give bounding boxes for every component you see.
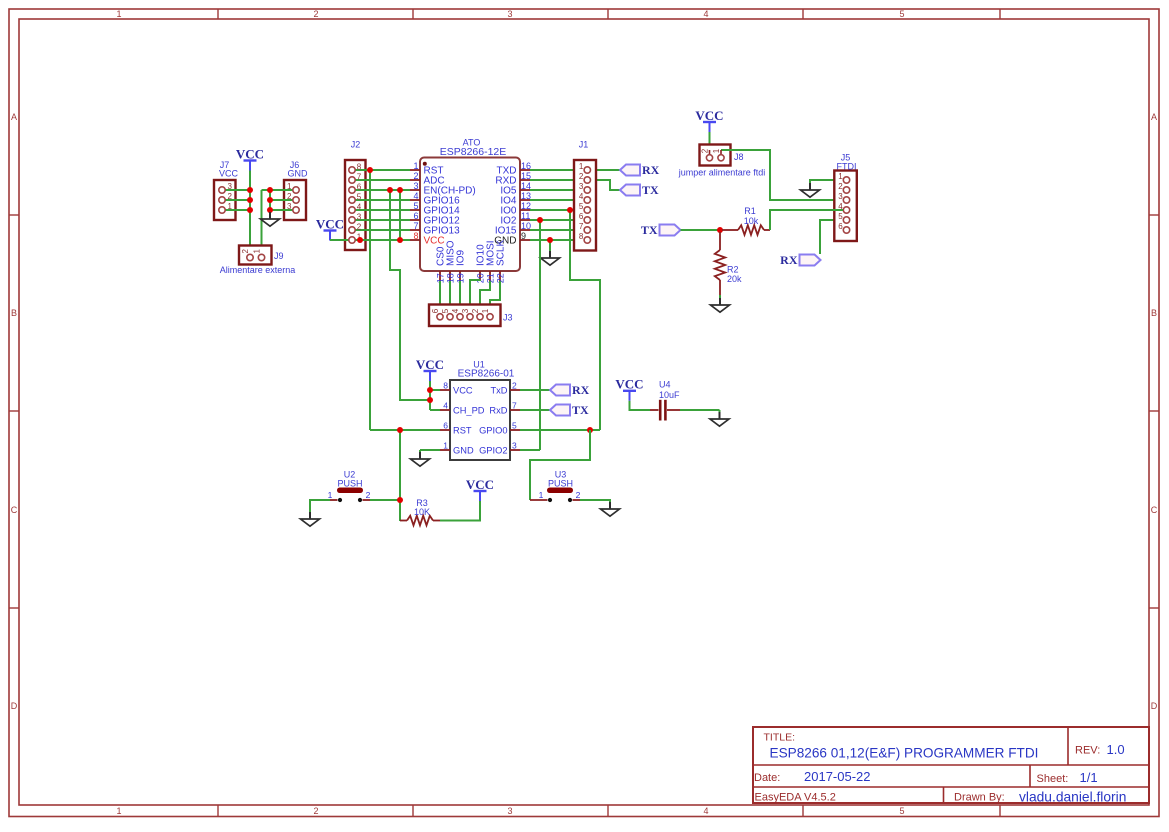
wire J6 pin2 to gnd rail — [270, 199, 293, 201]
svg-text:7: 7 — [512, 401, 517, 411]
svg-text:J3: J3 — [503, 313, 513, 323]
svg-text:4: 4 — [357, 203, 362, 212]
svg-text:GPIO2: GPIO2 — [479, 445, 507, 455]
junction GND row branch — [547, 237, 553, 243]
svg-text:6: 6 — [838, 222, 843, 231]
svg-text:1: 1 — [443, 441, 448, 451]
svg-text:4: 4 — [579, 192, 584, 201]
ic U1 ESP8266-01 body — [450, 360, 515, 461]
svg-text:RX: RX — [780, 253, 798, 267]
svg-text:5: 5 — [899, 806, 904, 816]
wire IO0 net jog down to GPIO0 row — [570, 210, 600, 430]
U3 pin stubs — [530, 498, 580, 502]
svg-text:1: 1 — [539, 490, 544, 500]
connector J5 FTDI — [834, 152, 857, 241]
svg-text:CH_PD: CH_PD — [453, 405, 485, 415]
svg-text:vladu.daniel.florin: vladu.daniel.florin — [1019, 789, 1126, 804]
svg-text:EasyEDA V4.5.2: EasyEDA V4.5.2 — [755, 791, 836, 803]
svg-text:5: 5 — [579, 202, 584, 211]
power flag VCC (U1) — [416, 357, 444, 381]
svg-text:3: 3 — [461, 308, 470, 313]
svg-text:SCLK: SCLK — [496, 240, 507, 266]
wire J2 pin3 to GPIO12 — [354, 219, 410, 221]
wire RST net vertical (J2 pin8 down to U1 RST) — [369, 170, 371, 430]
svg-text:5: 5 — [413, 201, 418, 211]
ATO left pin numbers 1-8 — [413, 161, 418, 241]
svg-text:5: 5 — [838, 212, 843, 221]
resistor R3 zigzag — [407, 516, 433, 526]
junction EN row branch 2 — [397, 187, 403, 193]
wire EN to VCC tie vertical — [399, 190, 401, 240]
svg-text:J2: J2 — [351, 140, 361, 150]
svg-text:8: 8 — [357, 163, 362, 172]
svg-text:1: 1 — [287, 182, 292, 191]
wire U4 to ground — [680, 409, 720, 411]
wire GND pin9 to J1 pin8 — [530, 239, 584, 241]
wire J7 pin2 to VCC rail — [225, 199, 250, 201]
svg-text:GND: GND — [453, 445, 474, 455]
wire VCC symbol to U1 pin8 — [429, 381, 431, 390]
power flag VCC (J8) — [695, 108, 723, 132]
wire J5 pin1 gnd — [810, 180, 843, 183]
svg-text:4: 4 — [703, 806, 708, 816]
svg-text:GPIO0: GPIO0 — [479, 425, 507, 435]
J6 pin circles and numbers — [287, 182, 299, 213]
junction gnd rail / J6 pin3 — [267, 207, 273, 213]
junction TX node / R2 — [717, 227, 723, 233]
wire MISO to J3 pin5 — [449, 281, 451, 314]
junction RST net at J2 pin8 row — [367, 167, 373, 173]
wire J5 pin5 to RX — [820, 220, 843, 254]
svg-text:1: 1 — [116, 9, 121, 19]
svg-text:3: 3 — [579, 182, 584, 191]
svg-text:TX: TX — [572, 403, 589, 417]
wire J2 pin5 to GPIO16 — [354, 199, 410, 201]
J7 pin circles and numbers — [219, 182, 233, 213]
svg-text:J1: J1 — [579, 140, 589, 150]
svg-text:A: A — [11, 112, 17, 122]
U1 right pin numbers 2,7,5,3 — [512, 381, 517, 451]
svg-text:8: 8 — [413, 231, 418, 241]
resistor R3 10K — [400, 520, 440, 522]
wire VCC to U4 — [630, 401, 651, 410]
svg-text:1: 1 — [838, 172, 843, 181]
wire J6 pin1 to gnd rail — [262, 189, 294, 191]
svg-text:VCC: VCC — [219, 168, 239, 178]
wire GPIO0 row — [520, 429, 600, 431]
svg-text:1.0: 1.0 — [1107, 742, 1125, 757]
svg-text:RX: RX — [642, 163, 660, 177]
svg-text:GND: GND — [288, 168, 309, 178]
ATO right pin stubs — [520, 170, 530, 240]
svg-text:7: 7 — [357, 173, 362, 182]
svg-text:C: C — [1151, 505, 1158, 515]
svg-text:15: 15 — [521, 171, 531, 181]
wire U3 pin1 branch — [530, 430, 590, 500]
svg-text:8: 8 — [443, 381, 448, 391]
wire R2 to ground — [719, 295, 721, 298]
ATO bottom pin names CS0 MISO IO9 IO10 MOSI SCLK — [436, 240, 507, 266]
svg-text:6: 6 — [413, 211, 418, 221]
svg-text:2: 2 — [701, 148, 710, 153]
wire U1 GND pin — [420, 449, 440, 451]
capacitor U4 10uF — [650, 400, 680, 421]
wire J2 pin7 to ADC — [354, 179, 410, 181]
wire U1 TxD to RX port — [520, 389, 550, 391]
junction EN-VCC tie at VCC row — [397, 237, 403, 243]
ground (U3) — [601, 502, 620, 516]
svg-text:VCC: VCC — [466, 477, 494, 492]
svg-text:4: 4 — [413, 191, 418, 201]
port RX (J1 pin1) — [620, 163, 660, 177]
svg-text:RST: RST — [453, 425, 472, 435]
U2 pin numbers — [328, 490, 371, 500]
svg-text:5: 5 — [357, 193, 362, 202]
svg-text:16: 16 — [521, 161, 531, 171]
svg-text:12: 12 — [521, 201, 531, 211]
svg-text:3: 3 — [228, 182, 233, 191]
frame row letters left — [11, 112, 18, 711]
wire J7 pin3 to VCC rail — [225, 189, 250, 191]
svg-text:5: 5 — [441, 308, 450, 313]
frame column numbers bottom — [116, 806, 904, 816]
wire J2 pin4 to GPIO14 — [354, 209, 410, 211]
J3 pin circles and rotated numbers — [431, 308, 493, 320]
svg-text:ESP8266-01: ESP8266-01 — [458, 369, 515, 380]
wire RXD to J1 pin2 — [530, 179, 584, 181]
junction gnd rail / J6 pin2 — [267, 197, 273, 203]
wire gnd rail vertical — [269, 190, 271, 212]
title block frame — [753, 727, 1149, 803]
wire R1 to J5 pin4 — [770, 210, 843, 230]
frame column ticks bottom — [218, 805, 1000, 817]
wire MOSI jog — [480, 281, 490, 314]
svg-text:10uF: 10uF — [659, 390, 680, 400]
power flag VCC (left rail) — [236, 146, 264, 170]
svg-text:TX: TX — [642, 183, 659, 197]
wire U1 pin4 connect — [430, 409, 440, 411]
U3 pin numbers — [539, 490, 581, 500]
wire R3 right to VCC — [440, 501, 480, 521]
wire TXD to J1 pin1 and RX port — [530, 169, 620, 171]
ground (U1 GND) — [411, 452, 430, 466]
svg-text:14: 14 — [521, 181, 531, 191]
svg-text:7: 7 — [579, 222, 584, 231]
port TX (R1 node) — [641, 223, 681, 237]
svg-text:D: D — [1151, 701, 1158, 711]
svg-text:4: 4 — [451, 308, 460, 313]
port TX (U1 RxD) — [550, 403, 589, 417]
svg-text:2017-05-22: 2017-05-22 — [804, 769, 871, 784]
svg-text:13: 13 — [521, 191, 531, 201]
frame row letters right — [1151, 112, 1158, 711]
J8 pin circles and rotated numbers — [701, 148, 725, 161]
svg-text:1: 1 — [328, 490, 333, 500]
wire EN net down-jog to U1 CH_PD — [390, 190, 430, 400]
svg-text:A: A — [1151, 112, 1157, 122]
ATO left pin stubs — [410, 170, 420, 240]
junction VCC rail / J7 pin2 — [247, 197, 253, 203]
ATO bottom pin numbers 17-22 — [435, 273, 505, 283]
connector J1 — [574, 140, 596, 251]
wire VCC to J8 pin2 — [709, 132, 711, 152]
U1 right pin stubs — [510, 390, 520, 450]
svg-text:TxD: TxD — [490, 385, 507, 395]
svg-text:1: 1 — [712, 148, 721, 153]
junction RST net / R3 branch — [397, 427, 403, 433]
wire RST net vertical to R3/U2 — [399, 430, 401, 521]
svg-text:1: 1 — [579, 162, 584, 171]
svg-text:2: 2 — [287, 192, 292, 201]
wire J6 pin3 to gnd rail — [270, 209, 293, 211]
svg-text:Sheet:: Sheet: — [1037, 773, 1069, 785]
wire IO2 to J1 pin6 — [530, 219, 584, 221]
wire U3 pin2 gnd — [580, 500, 610, 502]
svg-text:10k: 10k — [744, 216, 759, 226]
svg-text:RX: RX — [572, 383, 590, 397]
U1 left pin numbers 8,4,6,1 — [443, 381, 448, 451]
svg-text:D: D — [11, 701, 18, 711]
svg-text:TX: TX — [641, 223, 658, 237]
svg-text:2: 2 — [471, 308, 480, 313]
pushbutton U2 — [337, 469, 363, 493]
ATO bottom pin stubs — [440, 271, 500, 281]
resistor R1 zigzag — [738, 225, 764, 235]
connector J9 (Alimentare externa) — [239, 246, 272, 265]
svg-text:1: 1 — [253, 249, 262, 254]
svg-text:2: 2 — [366, 490, 371, 500]
svg-text:ESP8266 01,12(E&F) PROGRAMMER: ESP8266 01,12(E&F) PROGRAMMER FTDI — [770, 745, 1039, 760]
svg-text:3: 3 — [357, 213, 362, 222]
ground (J6 rail) — [261, 212, 280, 226]
wire GPIO2 to vertical — [520, 449, 540, 451]
ground (R2) — [711, 298, 730, 312]
svg-text:VCC: VCC — [416, 357, 444, 372]
frame row ticks right — [1149, 215, 1159, 608]
svg-text:2: 2 — [838, 182, 843, 191]
wire U1 RxD to TX port — [520, 409, 550, 411]
ground (U4) — [710, 412, 729, 426]
svg-text:6: 6 — [431, 308, 440, 313]
power flag VCC (R3) — [466, 477, 494, 501]
svg-text:7: 7 — [413, 221, 418, 231]
wire J8 to J5 pin3 — [721, 150, 843, 200]
wire J9 pin1 up to J6 rail — [261, 190, 263, 251]
svg-text:11: 11 — [521, 211, 530, 221]
svg-text:4: 4 — [703, 9, 708, 19]
ic ATO ESP8266-12E body — [420, 137, 520, 271]
svg-text:U4: U4 — [659, 379, 671, 389]
svg-text:1: 1 — [413, 161, 418, 171]
junction VCC rail / J7 pin1 — [247, 207, 253, 213]
wire VCC to J2 pin1 — [330, 239, 360, 241]
resistor R1 10k — [722, 229, 770, 231]
wire U2 pin2 to RST net — [370, 499, 400, 501]
wire IO5 to J1 pin3 — [530, 189, 584, 191]
svg-text:2: 2 — [512, 381, 517, 391]
resistor R2 zigzag — [715, 250, 725, 280]
svg-text:8: 8 — [579, 232, 584, 241]
junction J2 pin1 / VCC wire — [357, 237, 363, 243]
connector J7 (VCC header) — [214, 160, 238, 220]
wire VCC rail vertical to J9 — [249, 171, 251, 252]
power flag VCC (U4) — [615, 377, 643, 401]
svg-text:1: 1 — [228, 202, 233, 211]
J1 pin circles and numbers — [579, 162, 591, 243]
J9 pin circles and rotated numbers — [241, 249, 265, 261]
wire CS0 to J3 pin6 — [439, 281, 441, 314]
svg-text:2: 2 — [357, 223, 362, 232]
junction RST net / U2 pin2 — [397, 497, 403, 503]
svg-text:2: 2 — [579, 172, 584, 181]
svg-text:2: 2 — [241, 249, 250, 254]
U1 right pin names — [479, 385, 508, 455]
junction EN-net joins VCC stem — [427, 397, 433, 403]
wire IO4 to J1 pin4 — [530, 199, 584, 201]
wire GND branch at pin9 row — [549, 240, 551, 251]
svg-text:VCC: VCC — [236, 146, 264, 161]
svg-text:3: 3 — [507, 9, 512, 19]
junction VCC rail / J7 pin3 — [247, 187, 253, 193]
svg-text:R1: R1 — [744, 206, 756, 216]
ATO right pin names — [494, 165, 517, 246]
svg-text:REV:: REV: — [1075, 744, 1100, 756]
J5 pin circles and numbers — [838, 172, 849, 233]
wire RST row to U1 pin6 — [370, 429, 440, 431]
wire J2 pin2 to GPIO13 — [354, 229, 410, 231]
svg-text:6: 6 — [357, 183, 362, 192]
junction GPIO0 / U3 branch — [587, 427, 593, 433]
ground (U2) — [301, 512, 320, 526]
svg-text:5: 5 — [512, 421, 517, 431]
wire IO10 jog — [470, 280, 480, 314]
svg-text:10K: 10K — [414, 507, 430, 517]
resistor R2 20k — [719, 232, 721, 295]
ATO left pin names — [424, 165, 476, 246]
junction IO0 row / J1 pin5 — [567, 207, 573, 213]
svg-text:1/1: 1/1 — [1080, 770, 1098, 785]
svg-text:3: 3 — [413, 181, 418, 191]
svg-text:RxD: RxD — [489, 405, 507, 415]
ATO pin1 indicator dot — [423, 162, 427, 166]
svg-text:5: 5 — [899, 9, 904, 19]
wire IO9 to J3 pin4 — [459, 281, 461, 314]
wire SCLK jog — [490, 281, 500, 314]
svg-text:4: 4 — [443, 401, 448, 411]
power flag VCC (J2) — [316, 216, 344, 240]
junction IO2 row branch — [537, 217, 543, 223]
svg-text:3: 3 — [838, 192, 843, 201]
connector J8 (jumper alimentare ftdi) — [700, 145, 731, 166]
U1 left pin names — [453, 385, 485, 455]
frame column numbers top — [116, 9, 904, 19]
svg-text:J8: J8 — [734, 152, 744, 162]
connector J2 — [345, 140, 366, 251]
svg-text:3: 3 — [287, 202, 292, 211]
junction J1 pin1 / RX port — [577, 167, 583, 173]
svg-text:VCC: VCC — [695, 108, 723, 123]
svg-text:3: 3 — [512, 441, 517, 451]
frame column ticks top — [218, 9, 1000, 19]
wire TX port to R1 — [681, 229, 723, 231]
svg-text:FTDI: FTDI — [837, 161, 857, 171]
svg-text:B: B — [1151, 308, 1157, 318]
svg-text:Alimentare externa: Alimentare externa — [220, 265, 296, 275]
wire U1 pin8 connect — [430, 389, 440, 391]
J2 pin circles and numbers — [349, 163, 362, 244]
ATO right pin numbers 16-9 — [521, 161, 531, 241]
svg-text:Drawn By:: Drawn By: — [954, 791, 1005, 803]
svg-text:2: 2 — [313, 806, 318, 816]
svg-text:C: C — [11, 505, 18, 515]
port TX (J1 pin2) — [620, 183, 659, 197]
svg-text:3: 3 — [507, 806, 512, 816]
svg-text:PUSH: PUSH — [548, 478, 573, 488]
U1 left pin stubs — [440, 390, 450, 450]
wire J2 pin8 to ATO pin1 RST — [354, 169, 410, 171]
svg-text:IO9: IO9 — [456, 249, 467, 266]
svg-text:6: 6 — [579, 212, 584, 221]
svg-text:VCC: VCC — [316, 216, 344, 231]
port RX (U1 TxD) — [550, 383, 590, 397]
svg-text:2: 2 — [413, 171, 418, 181]
junction EN row branch 1 — [387, 187, 393, 193]
svg-text:VCC: VCC — [453, 385, 473, 395]
port RX (J5 pin5) — [780, 253, 820, 267]
svg-text:TITLE:: TITLE: — [764, 732, 796, 744]
U2 pin stubs — [330, 498, 370, 502]
pushbutton U3 — [547, 469, 573, 493]
svg-text:6: 6 — [443, 421, 448, 431]
svg-text:2: 2 — [313, 9, 318, 19]
connector J3 — [429, 305, 501, 327]
svg-text:PUSH: PUSH — [337, 478, 362, 488]
wire J2 pin1 to VCC pin8 — [360, 239, 410, 241]
connector J6 (GND header) — [284, 160, 308, 220]
frame row ticks left — [9, 215, 19, 608]
wire IO0 to J1 pin5 — [530, 209, 584, 211]
junction J1 pin2 / TX port — [577, 177, 583, 183]
wire U1 VCC/CH_PD vertical — [429, 390, 431, 410]
svg-text:1: 1 — [116, 806, 121, 816]
wire U2 pin1 gnd — [310, 500, 330, 512]
svg-text:VCC: VCC — [615, 377, 643, 392]
wire J2 pin6 to EN(CH-PD) — [354, 189, 410, 191]
svg-text:2: 2 — [576, 490, 581, 500]
ground (J5 pin1) — [801, 183, 820, 197]
svg-text:jumper alimentare ftdi: jumper alimentare ftdi — [678, 168, 766, 178]
wire TX jog to port — [580, 180, 620, 190]
svg-text:VCC: VCC — [424, 235, 445, 246]
svg-text:2: 2 — [228, 192, 233, 201]
wire IO2 net vertical down to U1 GPIO2 — [539, 220, 541, 450]
svg-text:9: 9 — [521, 231, 526, 241]
svg-text:20k: 20k — [727, 274, 742, 284]
junction gnd rail / J6 pin1 — [267, 187, 273, 193]
svg-text:20: 20 — [475, 273, 485, 283]
svg-text:Date:: Date: — [754, 772, 780, 784]
svg-text:B: B — [11, 308, 17, 318]
wire J7 pin1 to VCC rail — [225, 209, 250, 211]
svg-text:ESP8266-12E: ESP8266-12E — [440, 146, 507, 158]
ground (ESP-12E GND pin) — [541, 251, 560, 265]
junction U1 VCC pin8 — [427, 387, 433, 393]
wire IO15 to J1 pin7 — [530, 229, 584, 231]
svg-text:J9: J9 — [274, 251, 284, 261]
svg-text:1: 1 — [481, 308, 490, 313]
svg-text:10: 10 — [521, 221, 531, 231]
